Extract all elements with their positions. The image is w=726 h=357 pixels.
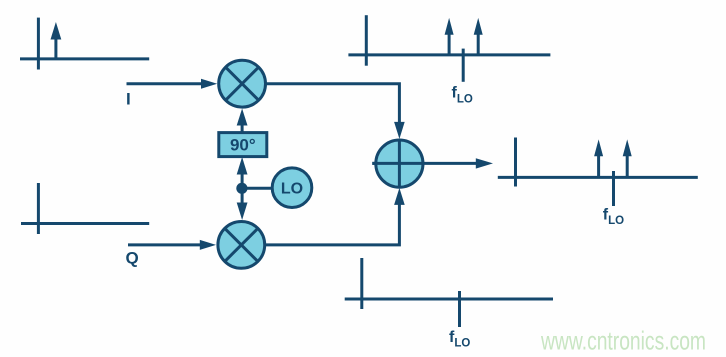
spectrum plot S4 fLO tick (612, 171, 615, 206)
spectrum plot S4 impulse stem 1 (597, 155, 600, 178)
spectrum plot S4 impulse stem 2 (626, 155, 629, 178)
arrowhead S1 impulse (51, 22, 62, 40)
arrowhead S4 impulse 2 (623, 139, 632, 156)
arrowhead I input into mixer1 (201, 79, 217, 89)
arrowhead S4 impulse 1 (594, 139, 603, 156)
wire LO to 90deg box (below mixer1) (241, 123, 244, 133)
spectrum plot S3 (top-right) axis horizontal (348, 53, 550, 56)
spectrum plot S3 impulse stem 1 (448, 33, 451, 55)
svg-text:fLO: fLO (452, 85, 473, 106)
arrowhead S3 impulse 2 (474, 18, 483, 35)
wire I input (127, 82, 203, 85)
summer cross horizontal bar (372, 162, 423, 165)
mixer M2 (Q mixer) (218, 222, 265, 269)
spectrum plot S2 axis horizontal (21, 222, 149, 225)
junction dot on LO net (236, 183, 247, 194)
arrowhead S3 impulse 1 (445, 18, 454, 35)
wire mixer2 to summer (bend) (265, 203, 399, 245)
svg-text:Q: Q (126, 249, 139, 268)
wire junction dot down to mixer2 (241, 188, 244, 207)
svg-text:fLO: fLO (449, 329, 470, 350)
spectrum plot S1 (I baseband, top-left) axis vertical (37, 18, 40, 70)
arrowhead up into 90deg box bottom (237, 157, 248, 175)
wire mixer1 to summer (bend) (266, 84, 399, 124)
spectrum plot S5 (bottom-middle) axis horizontal (345, 298, 553, 301)
summer cross vertical bar (398, 140, 401, 188)
wire Q input (128, 243, 202, 246)
arrowhead down into mixer2 top (LO path) (237, 203, 248, 221)
spectrum plot S3 fLO tick (462, 49, 465, 82)
svg-text:LO: LO (281, 181, 303, 198)
arrowhead Q input into mixer2 (200, 240, 216, 250)
spectrum plot S2 (Q baseband, bottom-left) axis vertical (37, 183, 40, 234)
arrowhead output (476, 158, 493, 168)
spectrum plot S1 impulse stem (54, 36, 57, 59)
phase shifter 90 degree box (219, 133, 267, 157)
LO oscillator circle (272, 168, 312, 208)
wire junction dot up to 90deg box (241, 170, 244, 188)
summer (combiner) (372, 140, 423, 187)
svg-text:90°: 90° (230, 136, 256, 155)
mixer M1 (I mixer) (219, 60, 266, 107)
arrowhead down into summer top (394, 122, 405, 139)
spectrum plot S5 left tick (360, 258, 363, 309)
arrowhead up into mixer1 bottom (LO path) (237, 109, 248, 126)
spectrum plot S4 left tick (514, 138, 517, 187)
svg-text:fLO: fLO (603, 206, 624, 227)
spectrum plot S5 fLO tick (458, 291, 461, 327)
svg-text:www.cntronics.com: www.cntronics.com (540, 326, 706, 356)
svg-text:I: I (126, 89, 131, 108)
wire output from summer (422, 162, 477, 165)
wire junction dot to LO circle (242, 187, 273, 190)
spectrum plot S3 impulse stem 2 (477, 33, 480, 55)
arrowhead up into summer bottom (394, 188, 405, 205)
spectrum plot S3 left tick (365, 15, 368, 65)
spectrum plot S4 (far-right output) axis horizontal (498, 176, 698, 179)
spectrum plot S1 axis horizontal (20, 57, 149, 60)
